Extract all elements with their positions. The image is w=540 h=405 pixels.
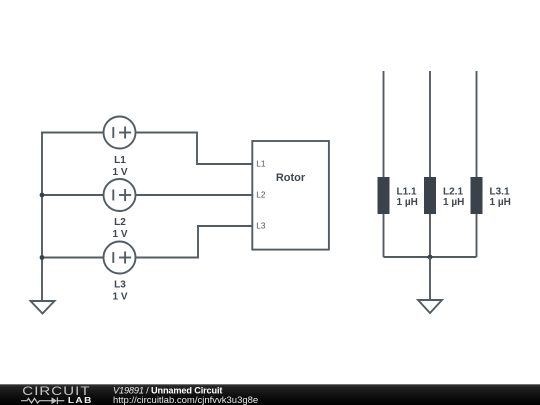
ground left	[31, 301, 55, 314]
svg-text:L1: L1	[256, 160, 266, 169]
inductor L2.1	[424, 177, 436, 214]
wire to ground right	[429, 257, 431, 300]
voltage source L3	[104, 242, 136, 274]
svg-text:L1: L1	[114, 155, 126, 166]
node junction left bus row3	[40, 255, 45, 260]
svg-text:L2: L2	[256, 191, 266, 200]
svg-text:L2.1: L2.1	[443, 187, 463, 198]
svg-text:L3: L3	[256, 222, 266, 231]
wire source L2 to Rotor pin L2	[136, 194, 253, 196]
svg-text:1 V: 1 V	[112, 229, 127, 240]
wire vertical bottom L3.1	[476, 214, 478, 257]
wire row2 bus to source L2	[42, 194, 104, 196]
svg-text:1 µH: 1 µH	[490, 197, 511, 208]
wire vertical top L3.1	[476, 71, 478, 177]
svg-text:L1.1: L1.1	[397, 187, 417, 198]
wire bottom bus right	[384, 256, 477, 258]
svg-text:LAB: LAB	[68, 396, 93, 405]
inductor L1.1	[378, 177, 390, 214]
voltage source L2	[104, 179, 136, 211]
wire left vertical bus	[41, 133, 43, 302]
label L2.1 1uH	[443, 187, 464, 209]
label L1 1V	[112, 155, 127, 178]
svg-text:1 V: 1 V	[112, 167, 127, 178]
voltage source L1	[104, 117, 136, 149]
svg-text:1 µH: 1 µH	[443, 197, 464, 208]
label L2 1V	[112, 217, 127, 240]
wire row3 bus to source L3	[42, 257, 104, 259]
svg-text:http://circuitlab.com/cjnfvvk3: http://circuitlab.com/cjnfvvk3u3g8e	[113, 395, 258, 405]
svg-text:L3: L3	[114, 280, 126, 291]
svg-text:1 V: 1 V	[112, 292, 127, 303]
label L3.1 1uH	[490, 187, 511, 209]
inductor L3.1	[471, 177, 483, 214]
label L3 1V	[112, 280, 127, 303]
label L1.1 1uH	[397, 187, 418, 209]
svg-text:Rotor: Rotor	[276, 172, 306, 184]
logo resistor-diode squiggle	[21, 397, 64, 404]
svg-text:L2: L2	[114, 217, 126, 228]
wire source L1 to jog	[136, 133, 253, 165]
node junction right bus	[428, 255, 433, 260]
svg-text:L3.1: L3.1	[490, 187, 510, 198]
wire vertical top L2.1	[429, 71, 431, 177]
svg-text:1 µH: 1 µH	[397, 197, 418, 208]
wire vertical top L1.1	[383, 71, 385, 177]
node junction left bus row2	[40, 193, 45, 198]
ground right	[418, 300, 442, 313]
wire vertical bottom L1.1	[383, 214, 385, 257]
wire row1 bus to source L1	[42, 132, 104, 134]
box Rotor U1	[252, 141, 329, 250]
wire source L3 to jog up to pin L3	[136, 226, 253, 258]
wire vertical bottom L2.1	[429, 214, 431, 257]
